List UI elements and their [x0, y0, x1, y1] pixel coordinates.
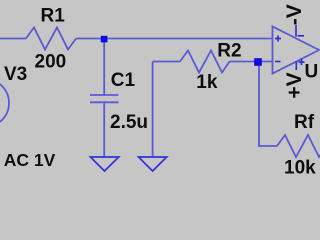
- svg-text:AC 1V: AC 1V: [4, 150, 56, 170]
- svg-text:R1: R1: [41, 6, 66, 27]
- svg-text:-V: -V: [283, 4, 306, 25]
- svg-text:Rf: Rf: [294, 112, 315, 133]
- svg-text:C1: C1: [111, 70, 136, 91]
- svg-text:V3: V3: [4, 64, 27, 85]
- svg-text:+V: +V: [283, 72, 306, 98]
- svg-text:2.5u: 2.5u: [110, 112, 148, 133]
- svg-text:R2: R2: [217, 41, 241, 62]
- svg-text:10k: 10k: [284, 158, 316, 179]
- svg-text:1k: 1k: [196, 72, 218, 93]
- svg-text:200: 200: [35, 52, 67, 73]
- svg-text:U: U: [305, 62, 319, 83]
